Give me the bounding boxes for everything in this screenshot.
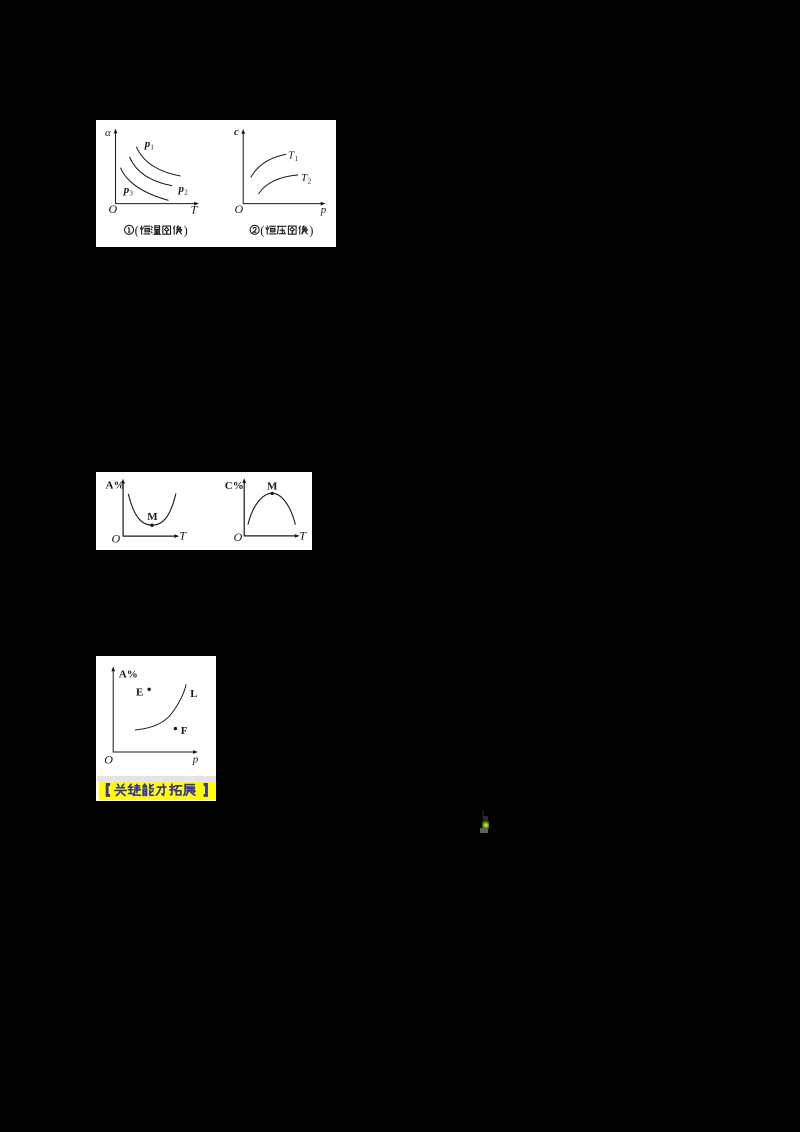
svg-text:O: O: [234, 202, 243, 216]
glyph li: [156, 784, 166, 795]
left graph axes (A% vs T): [123, 482, 175, 536]
svg-text:A%: A%: [106, 479, 125, 491]
right graph axes (c vs p): [243, 133, 321, 204]
svg-text:1: 1: [294, 155, 298, 163]
glyph guan: [114, 784, 125, 795]
figure panel 3: A% vs p graph with E, F, L: [96, 656, 216, 801]
svg-text:): ): [309, 223, 313, 237]
caption 1: (1)(isothermal graph): [124, 225, 181, 234]
point F dot: [174, 727, 177, 730]
axes (A% vs p): [113, 670, 194, 752]
yellow highlight band: [key ability expansion] heading: [99, 782, 217, 800]
svg-text:(: (: [260, 223, 264, 237]
axis arrowheads: [113, 128, 198, 205]
glyph jian: [128, 784, 140, 795]
caption 2: (2)(isobaric graph): [250, 225, 307, 234]
svg-text:F: F: [181, 725, 188, 737]
dot at minimum: [150, 523, 153, 526]
svg-text:A%: A%: [119, 668, 138, 680]
label T2: [300, 172, 311, 185]
svg-text:C%: C%: [225, 480, 244, 492]
svg-text:2: 2: [184, 188, 188, 196]
glyph tuo: [169, 784, 181, 795]
figure panel 1: rate/conversion graphs (isothermal & isobaric): [96, 120, 337, 248]
svg-text:): ): [183, 223, 187, 237]
inverted parabola with maximum M: [248, 493, 296, 524]
svg-text:M: M: [147, 510, 158, 522]
grey separator bar: [97, 776, 217, 782]
svg-text:O: O: [108, 202, 117, 216]
svg-text:L: L: [190, 688, 197, 700]
label p3: [122, 184, 133, 197]
svg-text:p: p: [192, 754, 199, 766]
svg-text:α: α: [104, 127, 110, 139]
U curve with minimum M: [128, 493, 176, 525]
glyph zhan: [183, 785, 194, 796]
point E dot: [148, 688, 151, 691]
svg-text:c: c: [233, 127, 238, 138]
svg-text:E: E: [136, 686, 143, 698]
curve p1: [136, 146, 180, 175]
right graph axes (C% vs T): [244, 481, 296, 535]
figure panel 2: A% / C% vs T graphs: [96, 472, 312, 551]
equilibrium curve rising to L: [135, 684, 186, 730]
svg-text:2: 2: [307, 177, 311, 185]
label p1: [143, 138, 154, 151]
svg-text:T: T: [299, 528, 307, 542]
svg-text:p: p: [319, 204, 326, 216]
svg-text:3: 3: [129, 189, 133, 197]
svg-text:T: T: [190, 202, 198, 216]
dot at maximum: [271, 491, 274, 494]
svg-text:M: M: [267, 480, 278, 492]
glyph neng: [143, 784, 153, 795]
svg-text:O: O: [234, 529, 243, 543]
left bracket: [107, 784, 110, 795]
left graph axes (alpha vs T): [115, 132, 194, 203]
svg-text:(: (: [134, 223, 138, 237]
CJK glyph path definitions (drawn strokes, 16x16 box): [0, 0, 1, 1]
axis arrowheads right graph: [241, 129, 325, 205]
tiny sprite near (480,822): [482, 810, 484, 817]
right bracket: [203, 784, 206, 795]
svg-text:T: T: [179, 528, 187, 542]
curve p2: [129, 157, 172, 186]
curve T1: [250, 154, 286, 177]
curve T2: [258, 175, 298, 194]
curve p3: [120, 167, 168, 200]
label T1: [287, 149, 298, 162]
label p2: [177, 183, 188, 196]
svg-text:1: 1: [150, 143, 154, 151]
svg-text:O: O: [112, 531, 121, 545]
svg-text:O: O: [104, 753, 113, 767]
